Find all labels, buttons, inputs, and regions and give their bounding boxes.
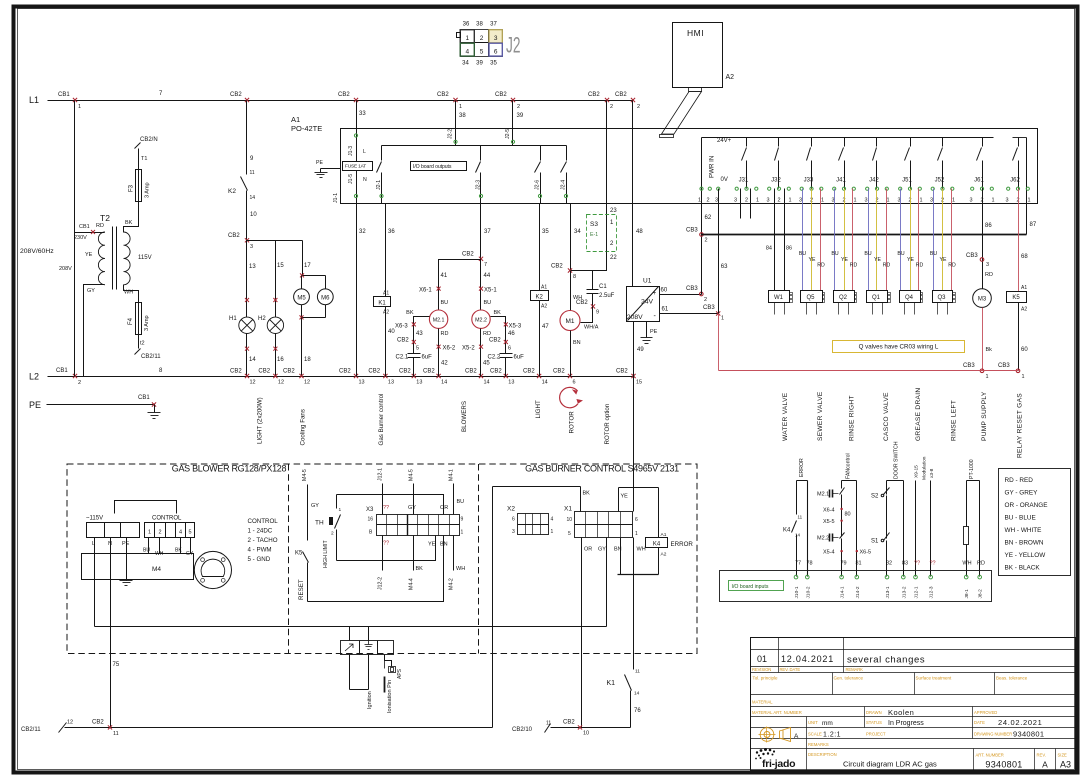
svg-text:J2-1: J2-1 — [376, 180, 382, 190]
motor M6 cooling fan — [317, 289, 333, 305]
svg-text:1: 1 — [461, 530, 464, 536]
svg-text:75: 75 — [113, 662, 120, 668]
svg-text:RINSE LEFT: RINSE LEFT — [951, 400, 958, 441]
svg-text:4: 4 — [179, 530, 182, 536]
node CB2 on L1 (wire 48) — [615, 92, 640, 110]
svg-text:REMARK: REMARK — [846, 667, 864, 672]
node CB2 on L1 (wire 39) — [495, 92, 520, 110]
svg-text:DESCRIPTION: DESCRIPTION — [808, 752, 837, 757]
svg-text:M5: M5 — [297, 295, 306, 301]
wire TH bottom loop YE — [337, 536, 448, 561]
wires BU YE RD to Q4 — [897, 189, 923, 291]
svg-text:DOOR SWITCH: DOOR SWITCH — [894, 441, 900, 479]
connector X1 — [564, 506, 638, 538]
node CB2 L2 blower1 RD — [423, 369, 447, 386]
svg-text:CB3: CB3 — [998, 363, 1010, 369]
svg-text:A1: A1 — [383, 291, 389, 297]
svg-text:CONTROL: CONTROL — [152, 516, 182, 522]
svg-text:39: 39 — [476, 61, 483, 67]
svg-text:2: 2 — [158, 530, 161, 536]
svg-text:3: 3 — [250, 244, 253, 250]
svg-text:OR: OR — [584, 547, 592, 553]
svg-text:J42: J42 — [869, 178, 879, 184]
svg-text:A1: A1 — [661, 532, 667, 538]
svg-text:9: 9 — [596, 310, 599, 316]
switch K2 contact — [228, 170, 257, 241]
svg-text:3 Amp: 3 Amp — [144, 315, 150, 331]
svg-text:38: 38 — [476, 22, 483, 28]
svg-text:J2-4: J2-4 — [561, 180, 567, 190]
svg-text:L1: L1 — [29, 95, 39, 105]
input column ERROR with K4 contact — [783, 458, 813, 576]
svg-text:E-1: E-1 — [590, 232, 598, 238]
svg-text:TH: TH — [315, 520, 324, 527]
svg-text:J14-1: J14-1 — [840, 586, 846, 598]
valve Q3 — [933, 291, 956, 315]
svg-text:A2: A2 — [383, 310, 389, 316]
wires M4 control pins — [149, 538, 191, 554]
HMI cable — [660, 88, 702, 138]
svg-text:24.02.2021: 24.02.2021 — [998, 718, 1043, 727]
svg-text:01: 01 — [757, 654, 767, 664]
svg-text:X1: X1 — [564, 506, 572, 513]
svg-text:5 - GND: 5 - GND — [248, 556, 271, 563]
svg-text:GY: GY — [408, 505, 416, 511]
wire to CB2/10 — [512, 720, 631, 737]
svg-text:J12-1: J12-1 — [914, 586, 920, 598]
svg-text:Tol. principle: Tol. principle — [753, 676, 779, 681]
strip pin J13-1 — [885, 575, 891, 598]
wire secondary top BK to fuse F3 — [124, 203, 139, 233]
dashed box GAS BLOWER / GAS BURNER enclosure — [67, 464, 697, 654]
legend wire colours box — [999, 469, 1071, 576]
svg-text:80: 80 — [845, 512, 851, 518]
svg-text:Gen. tolerance: Gen. tolerance — [834, 676, 864, 681]
wire M4-5 into X3 — [408, 469, 416, 514]
svg-text:WH: WH — [637, 547, 646, 553]
svg-text:WH: WH — [124, 290, 133, 296]
svg-text:0V: 0V — [721, 177, 728, 183]
capacitor C1 2.5uF — [576, 271, 615, 331]
input column modulation X9-15 x3-8 — [914, 456, 936, 576]
svg-text:H2: H2 — [258, 316, 266, 322]
svg-text:YE: YE — [809, 257, 816, 263]
svg-text:CB2: CB2 — [338, 92, 350, 98]
svg-text:6uF: 6uF — [422, 355, 433, 361]
wire BK riser — [581, 487, 591, 512]
svg-text:33: 33 — [359, 111, 366, 117]
contact J2-4 — [561, 146, 568, 204]
svg-text:K5: K5 — [1012, 295, 1020, 301]
svg-text:2: 2 — [908, 198, 911, 204]
svg-text:BK: BK — [494, 310, 502, 316]
svg-text:1: 1 — [148, 530, 151, 536]
motor M5 cooling fan — [294, 289, 310, 305]
svg-text:MATERIAL: MATERIAL — [752, 700, 773, 705]
relay coil K1 — [374, 204, 396, 377]
svg-text:M4-1: M4-1 — [449, 469, 455, 481]
svg-text:CB2/10: CB2/10 — [512, 727, 533, 733]
svg-text:14: 14 — [795, 533, 801, 538]
svg-text:X6-3: X6-3 — [395, 324, 408, 330]
wire M2.2 BK branch with C2.2 — [488, 310, 525, 377]
svg-text:RD: RD — [883, 263, 891, 269]
motor M1 rotor — [560, 271, 582, 377]
svg-text:10: 10 — [567, 517, 573, 523]
relay K4 ERROR — [646, 532, 694, 575]
node CB1 on PE with ground — [138, 395, 161, 419]
node CB2 lighting branch — [228, 233, 253, 250]
svg-text:23: 23 — [610, 208, 617, 214]
svg-text:16: 16 — [368, 517, 374, 523]
svg-text:CB2: CB2 — [615, 92, 627, 98]
title GAS BLOWER RG128/PX128 — [172, 464, 287, 474]
svg-text:X3: X3 — [366, 507, 374, 513]
svg-text:45: 45 — [483, 361, 490, 367]
relay contact J61 — [969, 138, 994, 204]
svg-text:2: 2 — [706, 198, 709, 204]
svg-text:17: 17 — [304, 263, 311, 269]
svg-text:3: 3 — [986, 262, 989, 268]
svg-text:YE - YELLOW: YE - YELLOW — [1005, 552, 1047, 559]
svg-text:5: 5 — [188, 530, 191, 536]
svg-text:2: 2 — [517, 104, 520, 110]
svg-text:Q valves have CR03 wiring L: Q valves have CR03 wiring L — [859, 344, 939, 351]
svg-text:REMARKS: REMARKS — [808, 742, 829, 747]
svg-text:M1: M1 — [565, 318, 574, 325]
wire to pump M3 — [966, 189, 993, 289]
projection symbol — [759, 727, 800, 743]
motor M2.1 blower — [429, 310, 447, 328]
svg-text:K4: K4 — [653, 542, 661, 548]
svg-text:230V: 230V — [74, 235, 87, 241]
node CB2 L2 wire47 — [523, 369, 548, 386]
title GAS BURNER CONTROL S4965V 2131 — [525, 464, 679, 474]
svg-text:ROTOR: ROTOR — [569, 411, 576, 434]
svg-text:1: 1 — [991, 198, 994, 204]
wire M4 L to OR line — [94, 538, 96, 627]
svg-text:6: 6 — [508, 346, 511, 352]
label A1 PO-42TE — [291, 115, 322, 133]
fuse F3 3 Amp — [129, 165, 151, 207]
relay contact J52 — [930, 138, 955, 204]
svg-text:13: 13 — [508, 380, 514, 386]
wire M4-1 BU into X3 — [440, 469, 464, 514]
svg-text:YE: YE — [907, 257, 914, 263]
svg-text:3: 3 — [512, 529, 515, 535]
svg-text:1: 1 — [788, 198, 791, 204]
svg-text:11: 11 — [113, 731, 119, 737]
svg-text:1: 1 — [721, 316, 724, 322]
svg-text:CB2/N: CB2/N — [140, 137, 158, 143]
relay contact J51 — [897, 138, 922, 204]
wire 48 from L1 to U1 — [633, 101, 644, 287]
svg-text:RD: RD — [483, 331, 491, 337]
svg-text:J10-1: J10-1 — [794, 586, 800, 598]
svg-text:14: 14 — [634, 691, 640, 697]
node CB2 L2 blower2 RD — [465, 369, 490, 386]
switch K1 — [607, 669, 642, 728]
svg-text:BU: BU — [897, 251, 904, 257]
svg-text:J12-1: J12-1 — [378, 468, 384, 481]
svg-text:K4: K4 — [783, 528, 791, 534]
wire M4-2 WH from X3 — [449, 536, 466, 591]
svg-text:Surface treatment: Surface treatment — [916, 676, 953, 681]
svg-text:CB2: CB2 — [230, 369, 242, 375]
svg-text:DRAWING NUMBER: DRAWING NUMBER — [974, 732, 1012, 737]
svg-text:A2: A2 — [661, 552, 667, 558]
svg-text:A1: A1 — [291, 115, 300, 124]
svg-text:34: 34 — [462, 61, 469, 67]
svg-text:10: 10 — [583, 731, 589, 737]
svg-text:fri-jado: fri-jado — [762, 758, 795, 770]
svg-text:X5-5: X5-5 — [823, 519, 835, 525]
contact J2-3 — [476, 146, 483, 204]
label box I/O board outputs — [411, 162, 467, 171]
svg-text:PE: PE — [29, 400, 41, 410]
pins 0V PWR IN — [698, 138, 728, 295]
svg-text:LIGHT (2x200W): LIGHT (2x200W) — [257, 397, 264, 444]
svg-text:YE: YE — [841, 257, 848, 263]
contact J2-1 — [376, 146, 383, 204]
svg-text:2 - TACHO: 2 - TACHO — [248, 537, 278, 544]
svg-text:A2: A2 — [726, 74, 735, 81]
svg-text:32: 32 — [359, 229, 366, 235]
svg-text:3: 3 — [734, 198, 737, 204]
svg-text:GAS BLOWER RG128/PX128: GAS BLOWER RG128/PX128 — [172, 464, 287, 474]
svg-text:4 - PWM: 4 - PWM — [248, 546, 272, 553]
ignition terminal boxes — [341, 641, 394, 655]
svg-text:CB2: CB2 — [553, 369, 565, 375]
svg-text:PT-1000: PT-1000 — [969, 459, 975, 479]
svg-text:In Progress: In Progress — [888, 720, 924, 727]
wire primary bottom GY — [84, 285, 105, 377]
svg-text:M4: M4 — [152, 566, 161, 573]
HMI box A2 — [673, 23, 735, 88]
svg-text:WH: WH — [962, 561, 971, 567]
svg-text:76: 76 — [634, 708, 641, 714]
svg-text:46: 46 — [508, 331, 515, 337]
svg-text:J52: J52 — [935, 178, 945, 184]
svg-text:BK: BK — [416, 566, 424, 572]
svg-text:CB3: CB3 — [703, 305, 715, 311]
I/O board inputs strip — [720, 571, 992, 602]
wire 23 from L1 — [607, 101, 618, 253]
svg-text:12: 12 — [250, 380, 256, 386]
svg-text:CB3: CB3 — [963, 363, 975, 369]
svg-text:1: 1 — [465, 35, 469, 42]
svg-text:7: 7 — [484, 262, 487, 268]
ionisation pin electrode — [385, 655, 392, 693]
pin J2-2 wire 38 — [448, 101, 467, 146]
svg-text:BN - BROWN: BN - BROWN — [1005, 540, 1044, 547]
svg-text:Q4: Q4 — [905, 295, 914, 301]
svg-text:36: 36 — [463, 22, 470, 28]
svg-text:SIZE: SIZE — [1058, 753, 1068, 758]
relay contact J41 — [831, 138, 856, 204]
node CB2 on L1 (wire 23) — [588, 92, 613, 110]
svg-text:S3: S3 — [590, 221, 598, 228]
svg-text:CB2/11: CB2/11 — [21, 727, 41, 733]
svg-text:J2-5: J2-5 — [505, 129, 511, 139]
svg-text:X2: X2 — [507, 506, 515, 513]
svg-text:M4-2: M4-2 — [449, 578, 455, 590]
node CB3 under K5 — [998, 363, 1025, 380]
fuse FUSE 1AT on board — [343, 162, 373, 171]
svg-text:60: 60 — [661, 288, 668, 294]
connector X3 — [366, 507, 464, 536]
svg-text:1: 1 — [952, 198, 955, 204]
svg-text:BN: BN — [573, 340, 581, 346]
wire M4 PE to ground — [120, 538, 133, 586]
svg-text:13: 13 — [388, 380, 394, 386]
svg-text:J2-3: J2-3 — [476, 180, 482, 190]
svg-text:Beas. tolerance: Beas. tolerance — [996, 676, 1028, 681]
svg-text:REV. DATE: REV. DATE — [780, 667, 801, 672]
rail PE — [29, 400, 155, 410]
svg-text:Modulation: Modulation — [922, 456, 928, 480]
svg-text:12: 12 — [278, 380, 284, 386]
relay contact J31 — [734, 138, 759, 204]
svg-text:60: 60 — [1021, 347, 1028, 353]
svg-text:X6-1: X6-1 — [419, 288, 432, 294]
svg-text:14: 14 — [249, 357, 256, 363]
svg-text:BU: BU — [864, 251, 871, 257]
svg-text:6: 6 — [494, 49, 498, 56]
svg-text:X6-2: X6-2 — [443, 346, 456, 352]
wire loop from bottom bus — [493, 487, 581, 728]
svg-text:WH/A: WH/A — [584, 325, 599, 331]
svg-text:14: 14 — [441, 380, 447, 386]
wire 37 from board — [481, 204, 492, 259]
U1 PE ground — [641, 322, 658, 344]
wire to M2.1 — [419, 260, 481, 311]
input column PT-1000 sensor — [962, 459, 985, 576]
svg-text:35: 35 — [542, 229, 549, 235]
svg-text:K1: K1 — [378, 300, 386, 306]
right board edge wire 87 — [1027, 138, 1037, 235]
svg-text:X6-5: X6-5 — [860, 550, 872, 556]
wire 18 — [302, 318, 312, 377]
rail L1 — [29, 91, 633, 105]
svg-text:HIGH LIMIT: HIGH LIMIT — [323, 540, 329, 568]
rail L2 — [29, 368, 634, 382]
svg-text:SCALE: SCALE — [808, 732, 822, 737]
svg-text:208V: 208V — [627, 314, 643, 321]
tag CB2/11 with wire t2 — [135, 341, 162, 361]
node CB2 on L1 (K2 branch) — [230, 92, 249, 102]
PWR IN inner box top 24V+ bus — [702, 138, 1027, 145]
motor M3 pump — [973, 289, 992, 308]
svg-text:1: 1 — [1027, 198, 1030, 204]
wires ignition to electrodes — [350, 627, 369, 690]
wire branch to lamps — [247, 240, 303, 242]
svg-text:11: 11 — [798, 515, 803, 520]
wire M2.1 BK branch with C2.1 — [395, 310, 432, 377]
svg-text:Circuit diagram LDR AC gas: Circuit diagram LDR AC gas — [843, 760, 937, 769]
wires BU YE RD to Q3 — [930, 189, 956, 291]
input column DOOR SWITCH S1 S2 — [871, 441, 908, 576]
wire OR from X1 — [582, 538, 593, 728]
title block orange labels — [752, 667, 1067, 758]
svg-text:42: 42 — [441, 361, 448, 367]
svg-text:PE: PE — [122, 541, 130, 547]
svg-text:J8-2: J8-2 — [978, 589, 984, 599]
wire 13 — [245, 241, 256, 318]
transformer T2 — [98, 213, 130, 290]
svg-text:BU: BU — [930, 251, 937, 257]
svg-text:5: 5 — [416, 346, 419, 352]
svg-text:WATER VALVE: WATER VALVE — [782, 392, 789, 441]
svg-text:RD: RD — [977, 561, 985, 567]
svg-text:41: 41 — [441, 273, 448, 279]
svg-text:47: 47 — [542, 324, 549, 330]
svg-text:YE: YE — [874, 257, 881, 263]
svg-text:ROTOR option: ROTOR option — [604, 403, 611, 444]
wire 61 U1 minus — [660, 305, 725, 322]
fan M4 impeller — [194, 551, 231, 588]
relay contact J33 — [799, 138, 824, 204]
svg-text:6uF: 6uF — [514, 355, 525, 361]
svg-text:Koolen: Koolen — [888, 708, 914, 717]
svg-text:3: 3 — [799, 198, 802, 204]
wire primary top 230V — [74, 223, 105, 241]
svg-text:J33: J33 — [804, 178, 814, 184]
wires BU YE RD to Q1 — [864, 189, 890, 291]
svg-text:2: 2 — [842, 198, 845, 204]
svg-text:1: 1 — [986, 374, 989, 380]
wire 16 below H2 — [273, 334, 284, 377]
svg-text:C1: C1 — [599, 284, 607, 290]
svg-text:Q3: Q3 — [937, 295, 946, 301]
svg-text:A: A — [1042, 760, 1048, 770]
svg-text:RD: RD — [96, 223, 104, 229]
svg-text:RD: RD — [441, 331, 449, 337]
svg-text:GY - GREY: GY - GREY — [1005, 490, 1039, 497]
label I/O board inputs — [729, 581, 784, 591]
svg-text:1: 1 — [339, 507, 342, 513]
node CB2 L2 blower2 BK — [490, 369, 514, 386]
lamp H1 — [229, 316, 255, 333]
gas blower M4 connector housing — [86, 501, 195, 558]
svg-text:J13-2: J13-2 — [901, 586, 907, 598]
svg-text:35: 35 — [490, 61, 497, 67]
svg-text:16: 16 — [277, 357, 284, 363]
0V thick bus — [702, 234, 1027, 236]
wire K5 to red bus — [1019, 303, 1029, 371]
svg-text:9340801: 9340801 — [985, 760, 1022, 770]
strip pin J8-2 — [978, 575, 984, 598]
svg-text:1: 1 — [78, 104, 81, 110]
svg-text:6: 6 — [635, 517, 638, 523]
strip pin J10-1 — [794, 575, 800, 598]
svg-text:1: 1 — [459, 104, 462, 110]
svg-text:H1: H1 — [229, 316, 237, 322]
svg-text:CB2/11: CB2/11 — [141, 354, 161, 360]
svg-text:BU: BU — [441, 300, 449, 306]
svg-text:M4-5: M4-5 — [302, 469, 308, 481]
svg-text:YE: YE — [621, 494, 629, 500]
svg-text:3 Amp: 3 Amp — [145, 182, 151, 198]
svg-text:BN: BN — [614, 547, 622, 553]
valve Q4 — [900, 291, 923, 315]
strip pin J8-1 — [964, 575, 970, 598]
switch S3 door — [587, 215, 617, 252]
contact J2-6 — [535, 146, 542, 204]
svg-text:X5-3: X5-3 — [509, 324, 522, 330]
svg-text:RESET: RESET — [298, 579, 305, 600]
wires BU YE RD to Q2 — [831, 189, 857, 291]
